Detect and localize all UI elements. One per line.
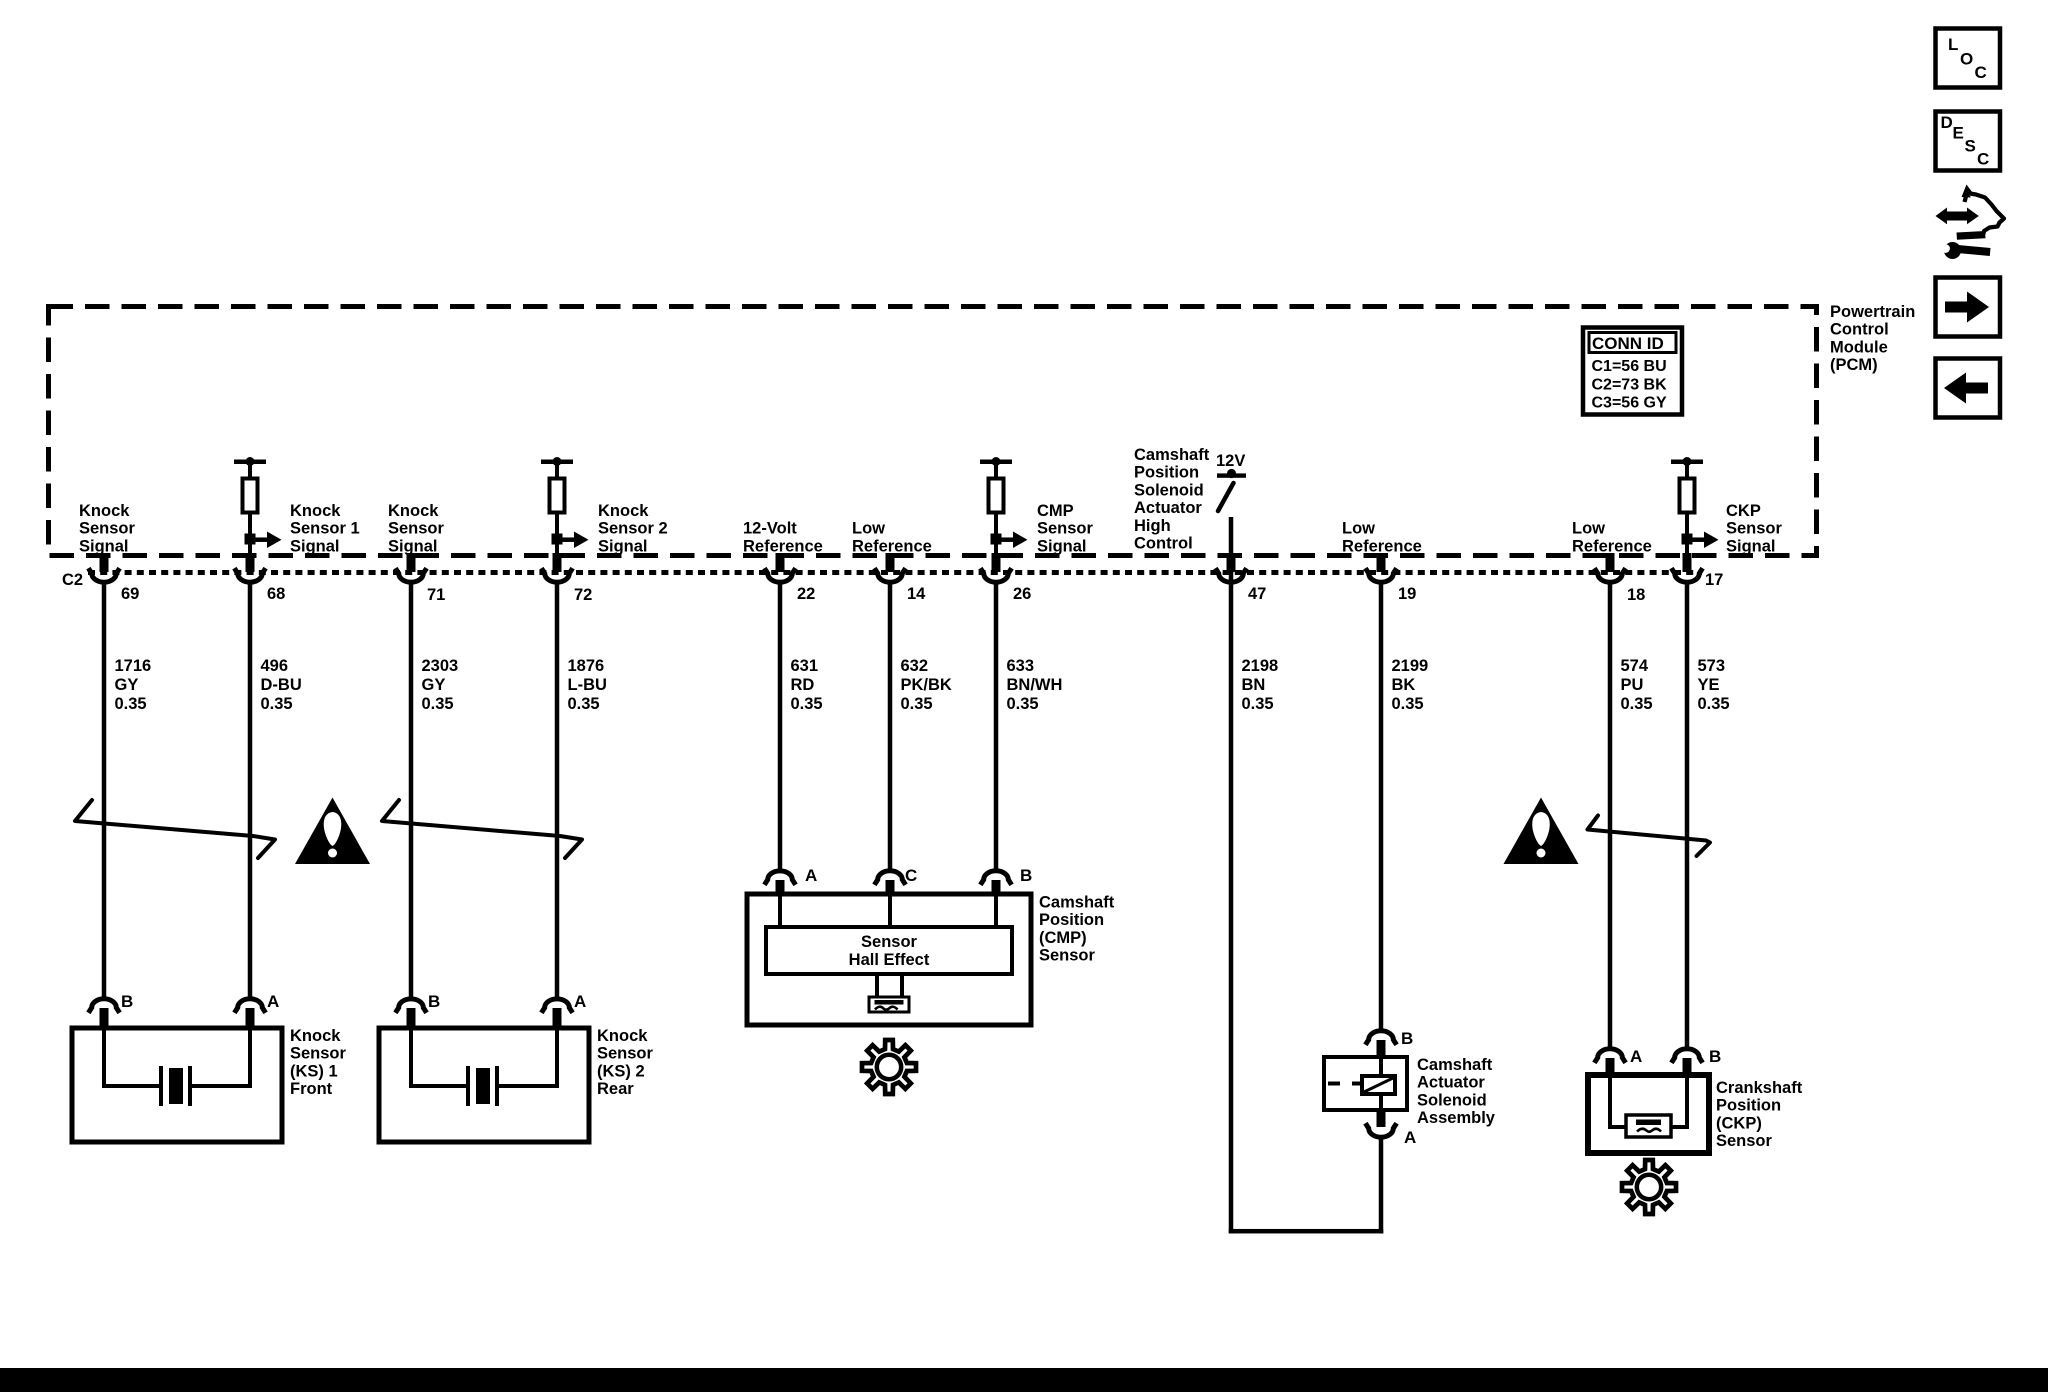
PCM connector pin 22 [764,553,815,603]
svg-text:C1=56 BUC2=73 BKC3=56 GY: C1=56 BUC2=73 BKC3=56 GY [1592,358,1668,412]
svg-text:47: 47 [1248,585,1266,603]
wire break squiggle (knock sensor 2 pair) [382,800,582,858]
wire 2199 BK from PCM 19 to solenoid B [1379,581,1384,1033]
Knock Sensor KS2 Rear box [379,992,589,1142]
svg-text:C: C [905,866,917,885]
svg-text:C2: C2 [62,571,83,589]
wire break squiggle (CKP pair) [1588,816,1711,857]
svg-text:18: 18 [1627,586,1645,604]
svg-text:S: S [1965,137,1976,156]
svg-text:19: 19 [1398,585,1416,603]
svg-text:17: 17 [1705,571,1723,589]
forward/next arrow icon box [1936,278,2001,337]
warning/caution triangle symbol [295,798,370,865]
PCM connector pin 14 [874,553,926,603]
PCM module dashed outline box [49,307,1817,556]
wire 496 D-BU from PCM 68 to KS1 A [248,581,253,998]
svg-text:22: 22 [797,585,815,603]
wire 573 YE from PCM 17 to CKP B [1685,581,1690,1050]
svg-text:L: L [1948,35,1958,54]
wire 2198 BN from PCM 47 down [1229,517,1234,1234]
wire 631 RD from PCM 22 to CMP A [778,581,783,870]
svg-text:68: 68 [267,585,285,603]
service/wrench tool icon [1936,185,2005,260]
svg-text:E: E [1953,124,1964,143]
LOC legend icon box [1936,29,2001,88]
svg-text:B: B [1401,1029,1413,1048]
warning/caution triangle symbol [1504,798,1579,865]
PCM connector pin 26 [980,553,1031,603]
PCM internal pull-up resistor at pin x=996 [980,457,1028,557]
svg-text:69: 69 [121,585,139,603]
wire 1876 L-BU from PCM 72 to KS2 A [555,581,560,998]
C2 connector dotted line [88,570,1702,575]
svg-text:O: O [1960,50,1973,69]
svg-text:A: A [1630,1047,1642,1066]
PCM connector pin 68 [234,553,285,603]
PCM internal pull-up resistor at pin x=250 [234,457,282,557]
bottom black bar [0,1368,2048,1392]
PCM connector pin 19 [1365,553,1416,603]
CKP gear (reluctor wheel) icon [1622,1160,1676,1214]
PCM connector pin 72 [541,553,592,604]
svg-text:Sensor: Sensor [861,933,918,951]
svg-text:CONN ID: CONN ID [1592,334,1664,353]
wire break squiggle (knock sensor 1 pair) [75,800,275,858]
PCM connector pin 17 [1671,553,1723,589]
wire 632 PK/BK from PCM 14 to CMP C [888,581,893,870]
back/previous arrow icon box [1936,359,2001,418]
PCM connector pin 71 [395,553,445,604]
PCM internal pull-up resistor at pin x=1687 [1671,457,1719,557]
DESC legend icon box [1936,112,2001,171]
svg-text:B: B [1709,1047,1721,1066]
svg-text:26: 26 [1013,585,1031,603]
svg-text:12V: 12V [1216,452,1245,470]
CONN ID table [1583,328,1682,415]
Camshaft Actuator Solenoid Assembly [1324,1029,1416,1147]
svg-text:Hall Effect: Hall Effect [849,951,930,969]
12V supply symbol with switch contact [1216,452,1246,511]
svg-text:A: A [267,992,279,1011]
svg-text:B: B [121,992,133,1011]
svg-text:KnockSensorSignal: KnockSensorSignal [79,502,136,555]
CMP gear (reluctor wheel) icon [862,1040,916,1094]
PCM connector pin 47 [1215,553,1266,603]
Knock Sensor KS1 Front box [72,992,282,1142]
wire 633 BN/WH from PCM 26 to CMP B [994,581,999,870]
wire 2303 GY from PCM 71 to KS2 B [409,581,414,998]
wire 574 PU from PCM 18 to CKP A [1608,581,1613,1050]
svg-text:14: 14 [907,585,926,603]
svg-text:72: 72 [574,586,592,604]
svg-text:A: A [1404,1128,1416,1147]
wire bottom return segment [1229,1229,1384,1234]
svg-text:KnockSensorSignal: KnockSensorSignal [388,502,445,555]
svg-text:D: D [1941,113,1953,132]
Camshaft Position CMP Sensor box [747,866,1032,1025]
wire from solenoid A down to junction [1379,1138,1384,1234]
svg-text:A: A [805,866,817,885]
svg-text:71: 71 [427,586,445,604]
svg-text:C: C [1977,150,1989,169]
PCM connector pin 69 [88,553,139,603]
svg-text:CamshaftActuatorSolenoidAssemb: CamshaftActuatorSolenoidAssembly [1417,1056,1496,1127]
PCM connector pin 18 [1594,553,1645,604]
PCM internal pull-up resistor at pin x=557 [541,457,589,557]
svg-text:A: A [574,992,586,1011]
svg-text:B: B [1020,866,1032,885]
Crankshaft Position CKP Sensor box [1588,1047,1721,1153]
svg-text:C: C [1975,63,1987,82]
svg-text:B: B [428,992,440,1011]
wire 1716 GY from PCM 69 to KS1 B [102,581,107,998]
